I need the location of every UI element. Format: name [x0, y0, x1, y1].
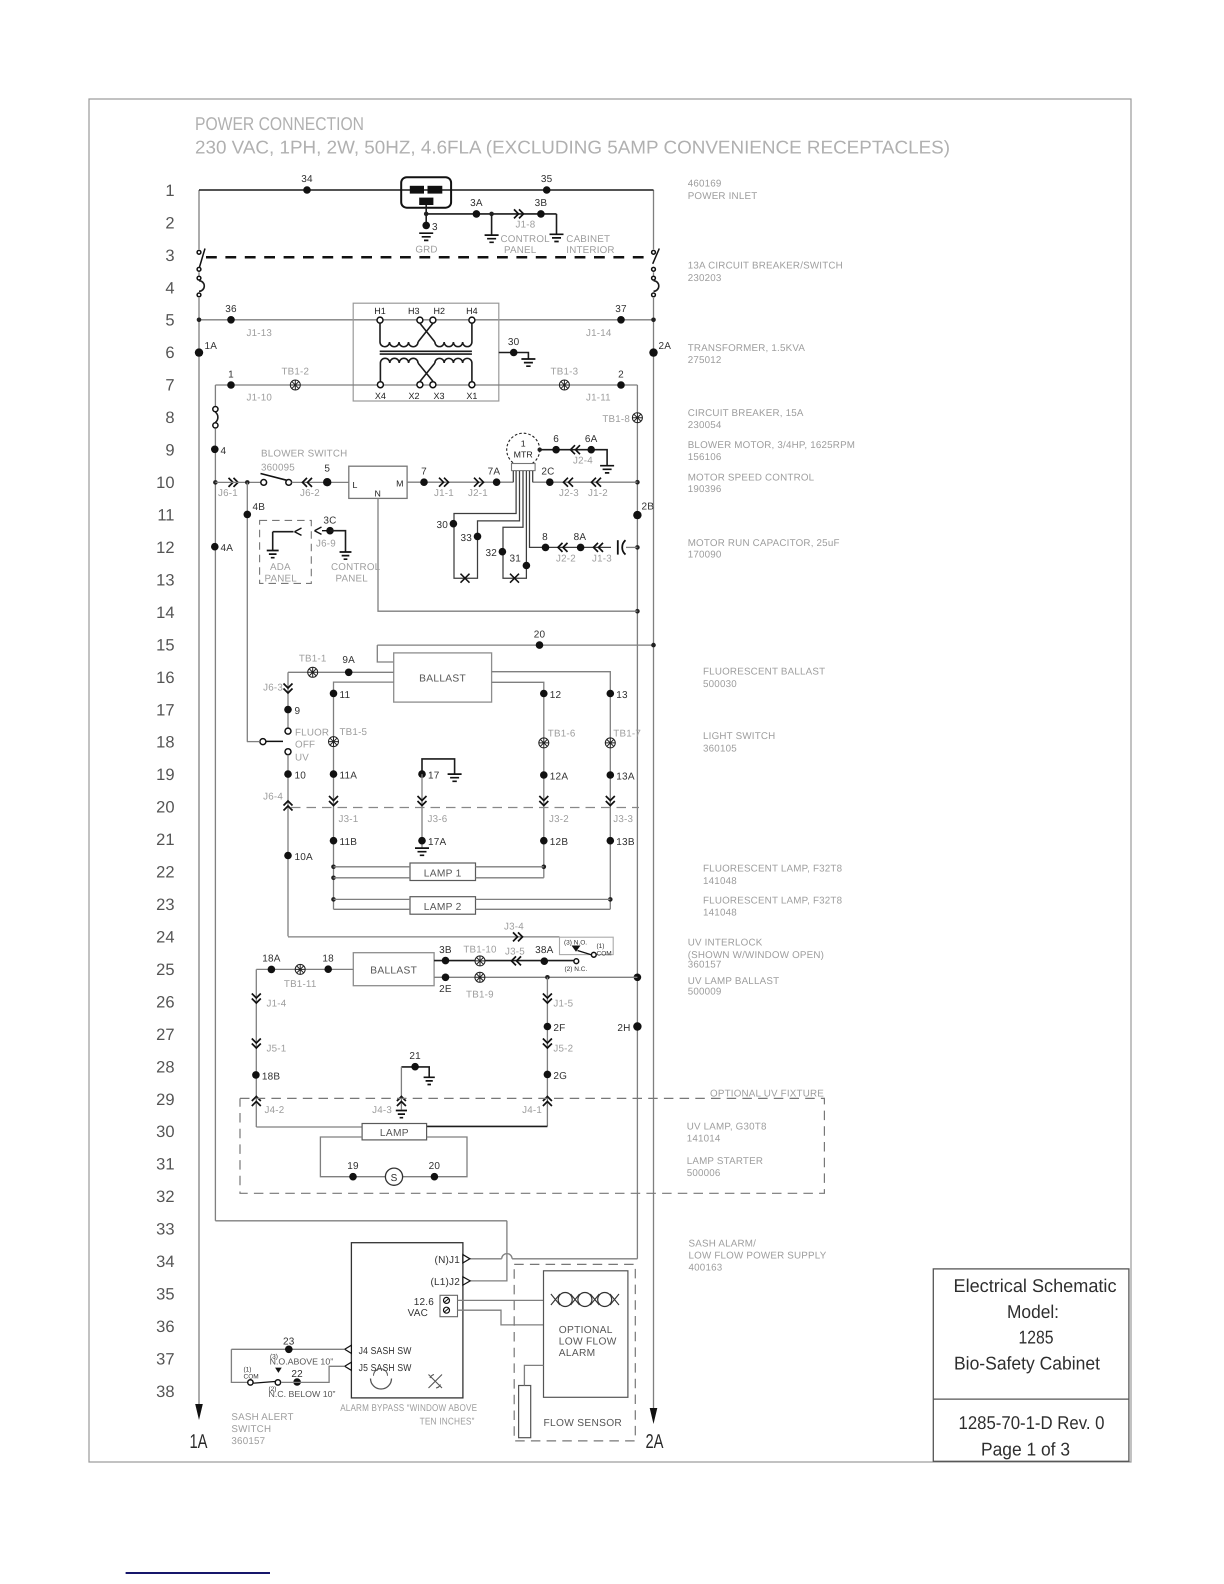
svg-text:3B: 3B [535, 198, 548, 209]
svg-text:18: 18 [156, 734, 174, 752]
svg-text:J2-3: J2-3 [559, 488, 579, 499]
svg-text:J4 SASH SW: J4 SASH SW [359, 1346, 412, 1357]
svg-text:400163: 400163 [689, 1263, 723, 1274]
svg-text:J4-1: J4-1 [522, 1105, 542, 1116]
svg-text:15: 15 [156, 636, 174, 654]
svg-text:170090: 170090 [688, 550, 722, 561]
svg-text:J3-3: J3-3 [613, 814, 633, 825]
svg-text:36: 36 [225, 304, 237, 315]
svg-text:POWER INLET: POWER INLET [688, 191, 758, 202]
svg-text:2C: 2C [541, 467, 554, 478]
svg-text:5: 5 [165, 312, 174, 330]
svg-text:CONTROL: CONTROL [501, 234, 551, 245]
svg-text:500009: 500009 [688, 987, 722, 998]
svg-text:(1): (1) [244, 1366, 252, 1373]
svg-text:J1-4: J1-4 [267, 999, 287, 1010]
svg-text:CONTROL: CONTROL [331, 562, 381, 573]
svg-text:J1-2: J1-2 [588, 488, 608, 499]
svg-text:UV LAMP BALLAST: UV LAMP BALLAST [688, 976, 780, 987]
svg-text:ADA: ADA [270, 562, 291, 573]
svg-text:MOTOR SPEED CONTROL: MOTOR SPEED CONTROL [688, 473, 815, 484]
svg-text:16: 16 [156, 669, 174, 687]
svg-text:(2) N.C.: (2) N.C. [565, 966, 588, 973]
svg-text:SASH ALERT: SASH ALERT [231, 1412, 293, 1423]
svg-text:FLUORESCENT BALLAST: FLUORESCENT BALLAST [703, 667, 825, 678]
svg-text:CABINET: CABINET [566, 234, 610, 245]
svg-text:TB1-11: TB1-11 [284, 979, 317, 990]
svg-text:TB1-6: TB1-6 [548, 728, 576, 739]
svg-text:20: 20 [156, 799, 174, 817]
svg-text:1285-70-1-D Rev. 0: 1285-70-1-D Rev. 0 [959, 1412, 1105, 1433]
svg-text:PANEL: PANEL [336, 574, 369, 585]
svg-text:X4: X4 [375, 391, 386, 401]
svg-text:13: 13 [156, 571, 174, 589]
svg-text:PANEL: PANEL [265, 574, 298, 585]
svg-text:J6-2: J6-2 [300, 488, 320, 499]
svg-text:12B: 12B [550, 837, 569, 848]
svg-text:6A: 6A [585, 434, 598, 445]
svg-text:J3-1: J3-1 [339, 814, 359, 825]
svg-text:TRANSFORMER, 1.5KVA: TRANSFORMER, 1.5KVA [688, 343, 806, 354]
svg-text:29: 29 [156, 1091, 174, 1109]
svg-text:18A: 18A [262, 954, 281, 965]
svg-text:21: 21 [409, 1051, 421, 1062]
svg-text:MTR: MTR [514, 450, 533, 460]
svg-text:TB1-9: TB1-9 [466, 990, 494, 1001]
svg-text:SWITCH: SWITCH [231, 1424, 271, 1435]
svg-text:11B: 11B [340, 837, 358, 848]
svg-text:TEN INCHES”: TEN INCHES” [420, 1417, 475, 1428]
svg-text:24: 24 [156, 928, 174, 946]
svg-text:J1-13: J1-13 [247, 328, 273, 339]
svg-text:J5 SASH SW: J5 SASH SW [359, 1363, 412, 1374]
svg-text:4: 4 [165, 279, 174, 297]
svg-text:11A: 11A [340, 771, 358, 782]
svg-text:H1: H1 [374, 306, 386, 316]
svg-text:2F: 2F [553, 1023, 565, 1034]
svg-text:J1-8: J1-8 [516, 219, 536, 230]
svg-text:17: 17 [156, 701, 174, 719]
svg-text:(N)J1: (N)J1 [435, 1255, 461, 1266]
svg-text:500030: 500030 [703, 679, 737, 690]
svg-text:23: 23 [283, 1336, 295, 1347]
svg-text:38A: 38A [535, 945, 554, 956]
svg-text:8A: 8A [574, 532, 587, 543]
svg-text:J1-3: J1-3 [592, 554, 612, 565]
svg-text:PANEL: PANEL [504, 245, 537, 256]
svg-text:MOTOR RUN CAPACITOR, 25uF: MOTOR RUN CAPACITOR, 25uF [688, 538, 840, 549]
svg-text:17: 17 [428, 771, 440, 782]
svg-text:2A: 2A [659, 341, 672, 352]
svg-text:TB1-2: TB1-2 [281, 367, 309, 378]
svg-text:12A: 12A [550, 772, 569, 783]
svg-text:4A: 4A [221, 543, 234, 554]
svg-text:4B: 4B [253, 502, 266, 513]
svg-text:J5-1: J5-1 [267, 1044, 287, 1055]
svg-text:M: M [396, 479, 403, 489]
svg-text:30: 30 [436, 520, 448, 531]
svg-text:18: 18 [322, 954, 334, 965]
svg-text:S: S [391, 1173, 398, 1184]
svg-text:156106: 156106 [688, 452, 722, 463]
svg-text:275012: 275012 [688, 355, 722, 366]
svg-text:19: 19 [347, 1161, 359, 1172]
svg-text:J6-9: J6-9 [316, 539, 336, 550]
svg-text:COM: COM [597, 950, 612, 957]
svg-text:ALARM: ALARM [559, 1348, 596, 1359]
svg-text:LAMP 1: LAMP 1 [424, 868, 462, 879]
svg-text:Page 1 of 3: Page 1 of 3 [981, 1439, 1070, 1460]
svg-text:GRD: GRD [415, 245, 437, 256]
svg-text:141048: 141048 [703, 908, 737, 919]
svg-text:38: 38 [156, 1383, 174, 1401]
svg-text:36: 36 [156, 1318, 174, 1336]
svg-text:BLOWER SWITCH: BLOWER SWITCH [261, 449, 347, 460]
svg-text:J4-2: J4-2 [265, 1105, 285, 1116]
svg-text:FLOW SENSOR: FLOW SENSOR [544, 1418, 623, 1429]
svg-text:3A: 3A [470, 198, 483, 209]
svg-text:30: 30 [156, 1123, 174, 1141]
svg-text:OPTIONAL: OPTIONAL [559, 1325, 613, 1336]
svg-text:N.C. BELOW 10”: N.C. BELOW 10” [269, 1389, 336, 1399]
svg-text:32: 32 [156, 1188, 174, 1206]
svg-text:34: 34 [301, 174, 313, 185]
svg-text:23: 23 [156, 896, 174, 914]
svg-text:9: 9 [165, 442, 174, 460]
svg-text:230054: 230054 [688, 420, 722, 431]
svg-text:32: 32 [485, 548, 497, 559]
svg-text:13: 13 [616, 690, 628, 701]
svg-text:22: 22 [291, 1369, 303, 1380]
svg-text:33: 33 [156, 1221, 174, 1239]
svg-text:20: 20 [429, 1161, 441, 1172]
svg-text:SASH ALARM/: SASH ALARM/ [689, 1239, 757, 1250]
svg-text:H4: H4 [466, 306, 478, 316]
svg-text:37: 37 [156, 1350, 174, 1368]
svg-text:H3: H3 [408, 306, 420, 316]
svg-text:27: 27 [156, 1026, 174, 1044]
svg-text:3: 3 [165, 247, 174, 265]
svg-text:8: 8 [165, 409, 174, 427]
svg-text:CIRCUIT BREAKER, 15A: CIRCUIT BREAKER, 15A [688, 408, 804, 419]
svg-text:13A CIRCUIT BREAKER/SWITCH: 13A CIRCUIT BREAKER/SWITCH [688, 261, 843, 272]
svg-text:LAMP: LAMP [380, 1128, 409, 1139]
svg-text:7: 7 [165, 377, 174, 395]
svg-text:OPTIONAL UV FIXTURE: OPTIONAL UV FIXTURE [710, 1089, 824, 1100]
svg-text:(L1)J2: (L1)J2 [430, 1277, 460, 1288]
svg-text:(1): (1) [597, 943, 605, 950]
svg-text:26: 26 [156, 993, 174, 1011]
svg-text:141048: 141048 [703, 876, 737, 887]
svg-text:J3-6: J3-6 [428, 814, 448, 825]
svg-text:J4-3: J4-3 [372, 1105, 392, 1116]
svg-text:BALLAST: BALLAST [370, 966, 417, 977]
svg-text:230 VAC, 1PH, 2W, 50HZ, 4.6FLA: 230 VAC, 1PH, 2W, 50HZ, 4.6FLA (EXCLUDIN… [195, 137, 950, 158]
svg-text:18B: 18B [262, 1071, 281, 1082]
svg-text:Model:: Model: [1007, 1301, 1059, 1322]
svg-text:(3) N.O.: (3) N.O. [564, 940, 587, 947]
svg-text:J1-1: J1-1 [434, 488, 454, 499]
svg-text:TB1-1: TB1-1 [299, 654, 327, 665]
svg-text:19: 19 [156, 766, 174, 784]
svg-text:BALLAST: BALLAST [419, 674, 466, 685]
svg-text:FLUOR: FLUOR [295, 728, 329, 739]
svg-text:BLOWER MOTOR, 3/4HP, 1625RPM: BLOWER MOTOR, 3/4HP, 1625RPM [688, 440, 855, 451]
svg-text:21: 21 [156, 831, 174, 849]
svg-text:10: 10 [295, 771, 307, 782]
svg-text:J3-5: J3-5 [505, 947, 525, 958]
svg-text:25: 25 [156, 961, 174, 979]
svg-text:J5-2: J5-2 [553, 1044, 573, 1055]
svg-text:190396: 190396 [688, 484, 722, 495]
svg-text:22: 22 [156, 864, 174, 882]
svg-text:35: 35 [156, 1286, 174, 1304]
svg-text:30: 30 [508, 337, 520, 348]
svg-text:9: 9 [295, 706, 301, 717]
svg-text:Bio-Safety Cabinet: Bio-Safety Cabinet [954, 1353, 1100, 1374]
svg-text:TB1-3: TB1-3 [551, 367, 579, 378]
svg-text:37: 37 [615, 304, 627, 315]
svg-text:1A: 1A [190, 1431, 208, 1453]
svg-text:2H: 2H [617, 1023, 630, 1034]
svg-text:J2-4: J2-4 [573, 456, 593, 467]
svg-text:H2: H2 [434, 306, 446, 316]
svg-text:J3-4: J3-4 [504, 922, 524, 933]
svg-text:J1-5: J1-5 [553, 999, 573, 1010]
svg-text:35: 35 [541, 174, 553, 185]
svg-text:4: 4 [221, 446, 227, 457]
svg-text:13A: 13A [616, 772, 635, 783]
svg-text:2E: 2E [439, 984, 452, 995]
svg-text:2G: 2G [553, 1071, 567, 1082]
svg-text:LAMP STARTER: LAMP STARTER [687, 1156, 763, 1167]
svg-text:9A: 9A [342, 655, 355, 666]
svg-text:1A: 1A [205, 341, 218, 352]
svg-text:X3: X3 [434, 391, 445, 401]
svg-text:360157: 360157 [231, 1436, 265, 1447]
svg-text:17A: 17A [428, 837, 447, 848]
svg-text:1: 1 [165, 182, 174, 200]
svg-text:360095: 360095 [261, 463, 295, 474]
svg-text:N: N [375, 489, 381, 499]
svg-text:3C: 3C [323, 516, 336, 527]
svg-text:360157: 360157 [688, 960, 722, 971]
svg-text:TB1-7: TB1-7 [613, 728, 641, 739]
svg-text:6: 6 [165, 344, 174, 362]
svg-text:1: 1 [521, 439, 526, 449]
svg-text:Electrical Schematic: Electrical Schematic [954, 1275, 1117, 1296]
svg-text:2B: 2B [642, 502, 655, 513]
svg-text:141014: 141014 [687, 1134, 721, 1145]
svg-text:460169: 460169 [688, 179, 722, 190]
svg-text:J6-3: J6-3 [263, 683, 283, 694]
svg-text:360105: 360105 [703, 744, 737, 755]
svg-text:UV LAMP, G30T8: UV LAMP, G30T8 [687, 1122, 767, 1133]
svg-text:33: 33 [460, 533, 472, 544]
svg-text:10A: 10A [295, 852, 314, 863]
svg-text:3: 3 [432, 222, 438, 233]
svg-text:J1-14: J1-14 [586, 328, 612, 339]
svg-text:12: 12 [156, 539, 174, 557]
svg-text:500006: 500006 [687, 1168, 721, 1179]
svg-text:FLUORESCENT LAMP, F32T8: FLUORESCENT LAMP, F32T8 [703, 864, 843, 875]
svg-text:34: 34 [156, 1253, 174, 1271]
svg-text:J2-1: J2-1 [468, 488, 488, 499]
svg-text:14: 14 [156, 604, 174, 622]
svg-text:ALARM BYPASS “WINDOW ABOVE: ALARM BYPASS “WINDOW ABOVE [340, 1403, 477, 1414]
svg-text:J1-11: J1-11 [586, 393, 611, 404]
svg-text:J6-4: J6-4 [263, 792, 283, 803]
svg-text:31: 31 [156, 1156, 174, 1174]
svg-text:3B: 3B [439, 945, 452, 956]
svg-text:2: 2 [165, 214, 174, 232]
svg-text:LAMP 2: LAMP 2 [424, 902, 462, 913]
svg-text:31: 31 [509, 554, 521, 565]
svg-text:1: 1 [228, 370, 234, 381]
svg-text:28: 28 [156, 1058, 174, 1076]
svg-text:LOW FLOW POWER SUPPLY: LOW FLOW POWER SUPPLY [689, 1251, 827, 1262]
svg-text:8: 8 [542, 532, 548, 543]
svg-text:TB1-5: TB1-5 [340, 727, 368, 738]
svg-text:LIGHT SWITCH: LIGHT SWITCH [703, 731, 775, 742]
svg-text:N.O.ABOVE 10”: N.O.ABOVE 10” [270, 1357, 334, 1367]
svg-text:INTERIOR: INTERIOR [566, 245, 614, 256]
svg-text:J1-10: J1-10 [247, 393, 273, 404]
svg-text:X2: X2 [408, 391, 419, 401]
svg-text:5: 5 [324, 464, 330, 475]
svg-text:POWER CONNECTION: POWER CONNECTION [195, 113, 364, 134]
svg-text:11: 11 [157, 507, 174, 525]
svg-text:10: 10 [156, 474, 174, 492]
svg-text:7A: 7A [488, 467, 501, 478]
svg-text:2: 2 [618, 370, 624, 381]
svg-text:12: 12 [550, 690, 562, 701]
svg-text:L: L [353, 480, 358, 490]
svg-text:11: 11 [340, 690, 351, 701]
svg-text:20: 20 [534, 630, 546, 641]
svg-text:J3-2: J3-2 [549, 814, 569, 825]
svg-text:TB1-10: TB1-10 [463, 945, 497, 956]
svg-text:LOW FLOW: LOW FLOW [559, 1336, 617, 1347]
svg-text:2A: 2A [646, 1431, 664, 1453]
svg-text:UV: UV [295, 753, 309, 764]
svg-text:J2-2: J2-2 [556, 554, 576, 565]
svg-text:12.6: 12.6 [414, 1297, 435, 1308]
svg-text:VAC: VAC [408, 1308, 428, 1319]
svg-text:230203: 230203 [688, 273, 722, 284]
svg-text:OFF: OFF [295, 740, 315, 751]
svg-text:J6-1: J6-1 [218, 488, 238, 499]
svg-text:1285: 1285 [1019, 1327, 1054, 1348]
svg-text:TB1-8: TB1-8 [602, 414, 630, 425]
svg-text:FLUORESCENT LAMP, F32T8: FLUORESCENT LAMP, F32T8 [703, 896, 843, 907]
svg-text:X1: X1 [466, 391, 477, 401]
svg-text:7: 7 [421, 467, 427, 478]
svg-text:13B: 13B [616, 837, 635, 848]
svg-text:6: 6 [553, 434, 559, 445]
svg-text:UV INTERLOCK: UV INTERLOCK [688, 938, 763, 949]
